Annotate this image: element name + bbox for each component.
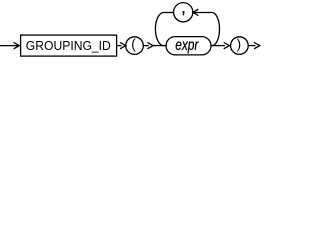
arrowhead exit [254,42,260,48]
keyword box GROUPING_ID [21,35,117,56]
loop wire over expr [155,13,219,46]
wire: open paren to loop junction [143,45,149,47]
wire: expr to close paren [211,45,225,47]
wire: entry line [0,45,18,47]
wire: exit line [248,45,255,47]
arrowhead into open paren [120,42,126,48]
terminal circle ) [231,37,249,55]
nonterminal oval expr [166,37,211,55]
terminal circle , on loop [174,3,193,22]
wire: junction to expr [153,45,167,47]
arrowhead into comma (pointing left) [193,9,199,15]
terminal circle ( [126,37,144,55]
svg-text:,: , [181,0,186,17]
svg-text:): ) [237,36,242,51]
svg-text:(: ( [131,36,136,51]
svg-text:GROUPING_ID: GROUPING_ID [26,38,111,53]
arrowhead into close paren [224,42,230,48]
arrowhead into GROUPING_ID box [14,42,20,48]
svg-text:expr: expr [175,37,199,54]
arrowhead at loop junction [147,42,153,48]
wire: box to open paren [117,45,122,47]
